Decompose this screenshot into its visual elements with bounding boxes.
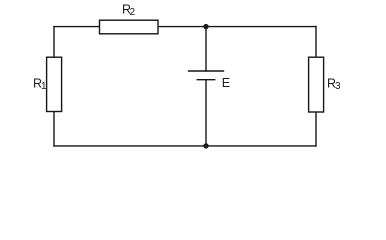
wire: battery bottom lead (battery negative plate down to node B): [205, 80, 207, 146]
wire: top rail, top-left corner to R2 left terminal: [54, 26, 100, 28]
wire: node B to bottom-right corner: [206, 145, 316, 147]
svg-text:R3: R3: [327, 76, 341, 92]
wire: right rail upper (top-right corner down to R3 top): [315, 27, 317, 58]
resistor R1 (body): [47, 57, 62, 111]
wire: bottom rail, bottom-left corner to node B: [54, 145, 206, 147]
resistor R3 (body): [309, 57, 324, 112]
node B: junction dot (bottom): [203, 143, 208, 148]
node A: junction dot (top): [203, 24, 208, 29]
wire: left rail lower (R1 bottom down to bottom-left corner): [53, 112, 55, 146]
wire: battery top lead (node A down to battery positive plate): [205, 27, 207, 71]
resistor R2 (body): [100, 20, 159, 34]
wire: left rail upper (top-left corner down to R1 top): [53, 27, 55, 58]
wire: R2 right terminal to node A: [158, 26, 206, 28]
wire: right rail lower (R3 bottom down to bottom-right corner): [315, 112, 317, 146]
svg-text:R1: R1: [33, 77, 47, 93]
battery E: negative plate (short): [197, 79, 215, 81]
svg-text:E: E: [222, 76, 230, 90]
battery E: positive plate (long): [189, 70, 224, 72]
svg-text:R2: R2: [122, 3, 136, 19]
wire: node A to top-right corner: [206, 26, 316, 28]
